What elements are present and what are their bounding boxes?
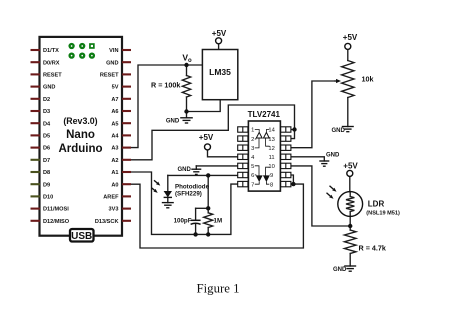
svg-text:Vo: Vo xyxy=(182,53,192,65)
svg-text:R = 100k: R = 100k xyxy=(151,81,180,90)
svg-text:D3: D3 xyxy=(43,109,50,115)
svg-text:TLV2741: TLV2741 xyxy=(248,110,281,119)
svg-text:11: 11 xyxy=(269,155,275,161)
svg-text:GND: GND xyxy=(333,267,347,273)
svg-text:(NSL19 M51): (NSL19 M51) xyxy=(366,210,400,216)
svg-text:A4: A4 xyxy=(111,134,119,140)
svg-text:D6: D6 xyxy=(43,146,50,152)
svg-text:A5: A5 xyxy=(111,121,118,127)
svg-text:D11/MOSI: D11/MOSI xyxy=(43,207,69,213)
svg-text:+5V: +5V xyxy=(343,161,358,170)
svg-text:D5: D5 xyxy=(43,134,50,140)
svg-text:3: 3 xyxy=(251,146,254,152)
svg-text:LDR: LDR xyxy=(368,200,385,209)
svg-text:AREF: AREF xyxy=(103,195,119,201)
svg-text:D12/MISO: D12/MISO xyxy=(43,219,70,225)
svg-text:D10: D10 xyxy=(43,195,53,201)
svg-text:A2: A2 xyxy=(111,158,118,164)
svg-text:14: 14 xyxy=(268,128,275,134)
svg-text:(Rev3.0): (Rev3.0) xyxy=(63,116,97,126)
svg-text:+5V: +5V xyxy=(343,33,358,42)
svg-text:RESET: RESET xyxy=(100,73,119,79)
svg-text:D0/RX: D0/RX xyxy=(43,60,60,66)
svg-text:Figure 1: Figure 1 xyxy=(197,281,240,295)
svg-text:7: 7 xyxy=(251,182,254,188)
svg-text:A1: A1 xyxy=(111,170,118,176)
svg-text:3V3: 3V3 xyxy=(109,207,119,213)
svg-text:Photodiode: Photodiode xyxy=(175,183,210,190)
svg-text:LM35: LM35 xyxy=(209,67,231,77)
svg-text:VIN: VIN xyxy=(109,48,118,54)
svg-text:1M: 1M xyxy=(214,217,223,224)
svg-text:D7: D7 xyxy=(43,158,50,164)
svg-text:GND: GND xyxy=(166,119,180,125)
svg-text:8: 8 xyxy=(270,182,273,188)
svg-text:D9: D9 xyxy=(43,182,50,188)
svg-text:+5V: +5V xyxy=(212,29,227,38)
svg-text:A7: A7 xyxy=(111,97,118,103)
svg-text:D2: D2 xyxy=(43,97,50,103)
svg-text:9: 9 xyxy=(270,173,273,179)
svg-text:5V: 5V xyxy=(112,85,119,91)
svg-text:Nano: Nano xyxy=(66,129,95,141)
svg-text:D1/TX: D1/TX xyxy=(43,48,59,54)
svg-text:GND: GND xyxy=(178,167,192,173)
svg-text:A3: A3 xyxy=(111,146,118,152)
svg-text:D8: D8 xyxy=(43,170,50,176)
svg-text:RESET: RESET xyxy=(43,73,62,79)
svg-text:6: 6 xyxy=(251,173,254,179)
svg-text:USB: USB xyxy=(71,231,92,242)
svg-text:A0: A0 xyxy=(111,182,118,188)
svg-text:5: 5 xyxy=(251,164,254,170)
svg-text:10k: 10k xyxy=(362,74,374,83)
svg-text:100pF: 100pF xyxy=(174,217,192,224)
svg-text:(SFH229): (SFH229) xyxy=(175,191,202,198)
svg-text:GND: GND xyxy=(332,128,346,134)
svg-text:GND: GND xyxy=(43,85,55,91)
svg-text:D13/SCK: D13/SCK xyxy=(95,219,119,225)
svg-text:2: 2 xyxy=(251,137,254,143)
svg-text:D4: D4 xyxy=(43,121,51,127)
svg-text:A6: A6 xyxy=(111,109,118,115)
svg-text:Arduino: Arduino xyxy=(58,143,102,155)
svg-text:GND: GND xyxy=(106,60,118,66)
svg-text:1: 1 xyxy=(251,128,254,134)
svg-text:+5V: +5V xyxy=(199,133,214,142)
svg-text:GND: GND xyxy=(326,152,340,158)
svg-text:R = 4.7k: R = 4.7k xyxy=(359,243,386,252)
svg-text:12: 12 xyxy=(268,146,274,152)
